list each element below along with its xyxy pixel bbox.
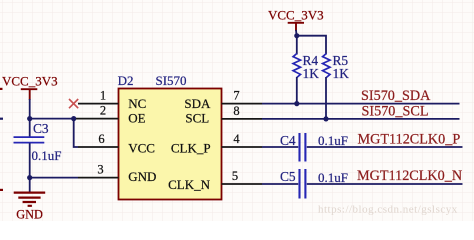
svg-text:SI570_SCL: SI570_SCL: [362, 103, 429, 119]
svg-text:0.1uF: 0.1uF: [318, 170, 348, 185]
wire C5 to net MGT112CLK0_N: [307, 183, 463, 185]
svg-text:MGT112CLK0_P: MGT112CLK0_P: [358, 132, 461, 148]
pin 2: [76, 118, 119, 120]
pin 3: [78, 177, 119, 179]
wire C4 to net MGT112CLK0_P: [307, 146, 463, 148]
pin 1: [78, 103, 119, 105]
wire ground stub: [29, 178, 31, 192]
wire net SI570_SDA: [262, 103, 460, 105]
IC D2 SI570 body: [119, 89, 222, 200]
svg-text:CLK_P: CLK_P: [171, 140, 211, 155]
svg-text:C3: C3: [33, 121, 49, 136]
svg-text:D2: D2: [118, 73, 134, 88]
wire C3 to ground node: [29, 143, 31, 177]
svg-text:SI570: SI570: [156, 73, 187, 88]
svg-text:7: 7: [233, 89, 239, 103]
svg-text:SDA: SDA: [184, 96, 211, 111]
svg-text:0.1uF: 0.1uF: [32, 148, 62, 163]
svg-text:0.1uF: 0.1uF: [318, 133, 348, 148]
wire net SI570_SCL: [262, 118, 460, 120]
wire R5 lead to SCL (crosses SDA): [325, 77, 327, 119]
node junction R5/SCL: [323, 116, 328, 121]
edge fragment: cut-off wire at left edge middle: [0, 118, 3, 120]
wire junction to R4 top: [296, 36, 298, 55]
power VCC_3V3 (top right) bar symbol: [288, 23, 304, 31]
wire pin 4 to C4: [262, 146, 298, 148]
wire VCC rail down to C3: [29, 99, 31, 137]
svg-text:GND: GND: [16, 208, 43, 221]
edge fragment: cut-off power bar at left edge top: [0, 88, 3, 90]
wire R4 lead to SDA: [296, 77, 298, 104]
pin 5: [222, 183, 263, 185]
capacitor C5: [300, 169, 306, 199]
edge fragment: cut-off ground bar at left edge bottom: [0, 189, 3, 191]
wire junction to pin 2 (OE): [30, 118, 74, 120]
wire power to junction: [295, 30, 298, 36]
svg-text:VCC: VCC: [128, 140, 155, 155]
svg-text:C5: C5: [280, 169, 296, 184]
ground symbol: [14, 193, 46, 206]
capacitor C4: [300, 133, 306, 162]
pin 6: [78, 146, 119, 148]
node junction VCC/OE branch: [27, 116, 32, 121]
wire junction to R5 top: [297, 36, 326, 55]
power VCC_3V3 (left) bar symbol: [21, 89, 38, 100]
svg-text:1K: 1K: [303, 66, 320, 81]
svg-text:VCC_3V3: VCC_3V3: [268, 8, 324, 23]
no-ERC cross on pin 1: [69, 99, 78, 108]
svg-text:GND: GND: [128, 169, 156, 184]
wire pin2 node down to pin 6 (VCC): [74, 119, 78, 147]
svg-text:C4: C4: [280, 133, 296, 148]
svg-text:VCC_3V3: VCC_3V3: [2, 74, 58, 89]
node junction R4/SDA: [294, 101, 299, 106]
svg-text:NC: NC: [128, 96, 146, 111]
node junction at pin 2: [71, 116, 76, 121]
svg-text:1: 1: [100, 89, 106, 103]
pin 8: [222, 118, 263, 120]
resistor R5: [323, 54, 330, 78]
node junction at ground: [27, 175, 32, 180]
pin 4: [222, 146, 263, 148]
svg-text:SI570_SDA: SI570_SDA: [361, 88, 431, 104]
wire pin 5 to C5: [262, 183, 298, 185]
capacitor C3: [14, 137, 45, 143]
svg-text:CLK_N: CLK_N: [168, 177, 211, 192]
svg-text:MGT112CLK0_N: MGT112CLK0_N: [357, 168, 462, 184]
svg-text:2: 2: [100, 104, 106, 118]
svg-text:6: 6: [98, 132, 104, 146]
resistor R4: [293, 54, 300, 78]
svg-text:5: 5: [232, 169, 238, 183]
svg-text:1K: 1K: [333, 66, 350, 81]
node junction R4/R5 supply: [294, 33, 299, 38]
svg-text:4: 4: [233, 132, 240, 146]
svg-text:SCL: SCL: [185, 110, 209, 125]
svg-text:https://blog.csdn.net/gslscyx: https://blog.csdn.net/gslscyx: [318, 204, 458, 216]
wire ground node to pin 3 (GND): [30, 177, 78, 179]
svg-text:8: 8: [233, 104, 239, 118]
svg-text:OE: OE: [128, 110, 145, 125]
pin 7: [222, 103, 263, 105]
svg-text:3: 3: [97, 163, 103, 177]
